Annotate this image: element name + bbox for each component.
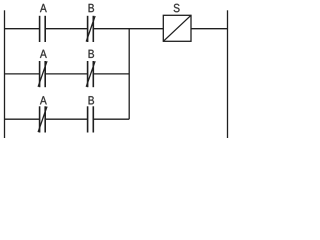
wire rung2 contact A to contact B (45, 73, 87, 75)
wire rung2 left rail to contact A (5, 73, 40, 75)
wire rung1 contact B to box S (93, 28, 163, 30)
contact B rung1 (normally closed) (86, 16, 95, 42)
wire rung1 contact A to contact B (45, 28, 87, 30)
wire rung3 left rail to contact A (5, 118, 40, 120)
label A (rung 1) (40, 4, 47, 12)
wire box S to right rail (191, 28, 228, 30)
label B (rung 2) (89, 50, 94, 58)
left power rail (4, 10, 6, 138)
label S (174, 4, 180, 12)
contact A rung3 (normally closed) (38, 106, 47, 132)
label A (rung 2) (40, 50, 47, 58)
label B (rung 1) (89, 4, 94, 12)
right power rail (227, 10, 229, 138)
contact B rung2 (normally closed) (86, 61, 95, 87)
output box S with diagonal (163, 15, 191, 41)
wire rung3 contact A to contact B (45, 118, 87, 120)
contact B rung3 (normally open) (88, 106, 94, 132)
contact A rung1 (normally open) (40, 16, 46, 42)
label B (rung 3) (89, 96, 94, 104)
wire rung3 contact B to branch (93, 118, 129, 120)
label A (rung 3) (40, 96, 47, 104)
contact A rung2 (normally closed) (38, 61, 47, 87)
wire rung2 contact B to branch (93, 73, 129, 75)
wire rung1 left rail to contact A (5, 28, 40, 30)
vertical branch joining rungs 2 and 3 to rung 1 (128, 29, 130, 120)
